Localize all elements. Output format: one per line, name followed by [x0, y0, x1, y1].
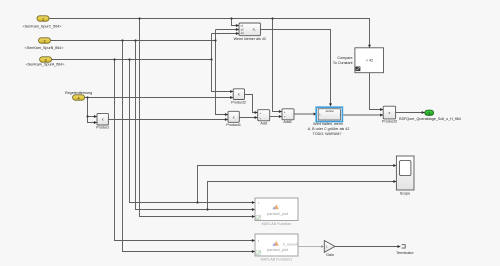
svg-text:<SenKam_SpurA_fl64>: <SenKam_SpurA_fl64> [26, 63, 65, 67]
svg-text:Terminator: Terminator [396, 251, 414, 255]
svg-text:Add: Add [260, 122, 267, 126]
svg-text:Gain: Gain [326, 253, 334, 257]
svg-text:Action: Action [325, 109, 334, 113]
svg-text:Regelentfernung: Regelentfernung [65, 91, 92, 95]
svg-text:x: x [233, 115, 235, 119]
svg-text:BSFQuer_Querablage_Soll_o_H_fl: BSFQuer_Querablage_Soll_o_H_fl64 [399, 117, 461, 121]
svg-text:parabel_plot: parabel_plot [267, 212, 289, 216]
svg-text:A, B oder C größer als 42: A, B oder C größer als 42 [308, 127, 350, 131]
svg-text:<SenKam_SpurC_fl64>: <SenKam_SpurC_fl64> [23, 24, 62, 28]
svg-text:MATLAB Function: MATLAB Function [262, 222, 292, 226]
svg-text:Product1: Product1 [226, 123, 241, 127]
svg-text:1: 1 [428, 111, 430, 115]
svg-text:MATLAB Function1: MATLAB Function1 [261, 257, 293, 261]
svg-text:Compare: Compare [337, 56, 352, 60]
svg-text:Product: Product [96, 125, 109, 129]
svg-text:<SenKam_SpurB_fl64>: <SenKam_SpurB_fl64> [25, 46, 64, 50]
svg-text:2: 2 [43, 39, 45, 43]
svg-text:b_convert: b_convert [283, 242, 298, 246]
svg-text:Wenn kleiner als 42: Wenn kleiner als 42 [234, 37, 266, 41]
svg-text:Product2: Product2 [231, 101, 246, 105]
svg-text:x: x [389, 111, 391, 115]
svg-text:To Constant: To Constant [333, 61, 353, 65]
svg-text:Product3: Product3 [382, 120, 397, 124]
svg-text:Scope: Scope [400, 192, 410, 196]
svg-text:1: 1 [42, 17, 44, 21]
svg-text:< 42: < 42 [366, 58, 373, 62]
svg-text:Add1: Add1 [283, 120, 292, 124]
svg-text:parabel_plot: parabel_plot [267, 248, 289, 252]
svg-text:x: x [102, 118, 104, 122]
svg-text:Wert halten, wenn: Wert halten, wenn [313, 122, 343, 126]
svg-text:R_: R_ [253, 27, 257, 31]
svg-text:4: 4 [78, 96, 80, 100]
svg-text:TODO: WARUM?: TODO: WARUM? [313, 132, 342, 136]
svg-text:x: x [238, 93, 240, 97]
